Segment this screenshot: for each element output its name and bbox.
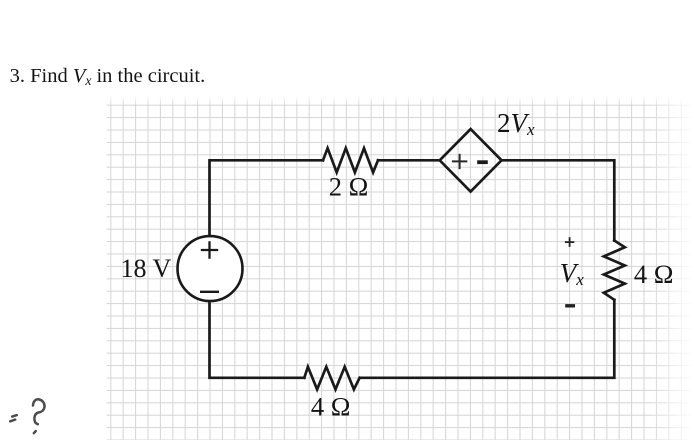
svg-text:18 V: 18 V (121, 254, 172, 283)
handwritten equals mark (10, 399, 44, 433)
wire: left vertical + top-left horizontal (210, 160, 324, 236)
minus inside diamond U1 (477, 160, 488, 164)
plus inside diamond U1 (452, 154, 467, 169)
wire: top middle (378, 159, 440, 162)
minus of source V1 (200, 291, 219, 293)
wire: right vertical lower + bottom right horizontal (360, 300, 614, 378)
wire: bottom left horizontal + left vertical lower (210, 301, 305, 378)
voltage source V1 18V (circle) (178, 236, 243, 301)
plus of source V1 (201, 241, 218, 258)
svg-text:4 Ω: 4 Ω (311, 392, 351, 422)
wire: top right + right vertical upper (502, 160, 615, 240)
resistor R3 4ohm (bottom) (304, 367, 359, 390)
handwritten question mark (33, 399, 45, 424)
svg-text:3. Find Vx in the circuit.: 3. Find Vx in the circuit. (10, 65, 206, 88)
minus mark of Vx polarity (565, 304, 575, 307)
plus mark of Vx polarity (565, 237, 574, 247)
svg-text:2 Ω: 2 Ω (329, 172, 369, 202)
handwritten question-mark dot (34, 431, 36, 433)
svg-text:4 Ω: 4 Ω (634, 259, 674, 289)
dependent source U1 2Vx (diamond) (440, 129, 502, 192)
resistor R2 4ohm (right) (604, 241, 625, 300)
resistor R1 2ohm (top) (323, 148, 378, 172)
